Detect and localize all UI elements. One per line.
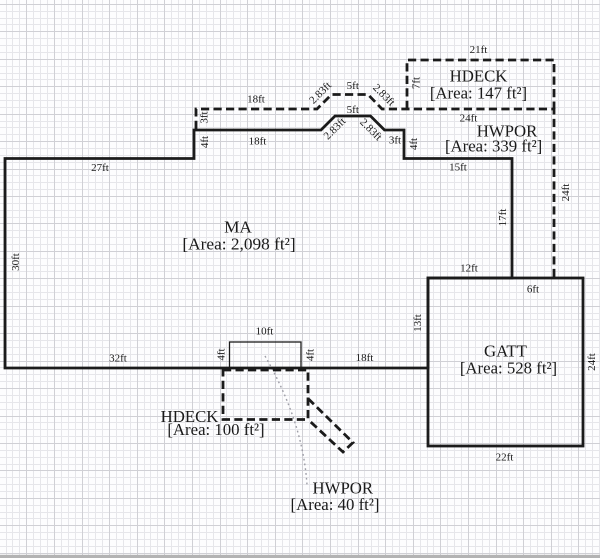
HDECK 147 dashed outline [407,60,554,109]
svg-text:[Area: 528 ft²]: [Area: 528 ft²] [460,359,557,378]
svg-text:27ft: 27ft [91,162,109,174]
svg-text:3ft: 3ft [389,134,401,146]
svg-text:3ft: 3ft [198,111,210,123]
HWPOR 40 thin rectangle [230,342,302,368]
svg-text:[Area: 2,098 ft²]: [Area: 2,098 ft²] [182,235,295,254]
svg-text:10ft: 10ft [256,325,274,337]
svg-text:[Area: 147 ft²]: [Area: 147 ft²] [430,84,527,103]
svg-text:24ft: 24ft [460,112,478,124]
HWPOR 339 dashed outline [196,95,554,279]
svg-text:7ft: 7ft [410,77,422,89]
svg-text:4ft: 4ft [199,136,211,148]
svg-text:30ft: 30ft [10,253,22,271]
svg-text:18ft: 18ft [356,352,374,364]
svg-text:13ft: 13ft [412,314,424,332]
leader line from HWPOR 40 rect to its label [265,356,307,485]
HWPOR 40 angled dashed outline [308,399,353,453]
svg-text:24ft: 24ft [560,184,572,202]
svg-text:12ft: 12ft [460,262,478,274]
svg-text:17ft: 17ft [497,209,509,227]
svg-text:18ft: 18ft [247,93,265,105]
svg-text:5ft: 5ft [347,104,359,116]
svg-text:21ft: 21ft [470,44,488,56]
svg-text:4ft: 4ft [304,349,316,361]
svg-text:22ft: 22ft [496,451,514,463]
MA outline [5,116,512,368]
svg-text:18ft: 18ft [249,135,267,147]
svg-text:4ft: 4ft [215,348,227,360]
GATT outline [428,278,583,446]
svg-text:[Area: 100 ft²]: [Area: 100 ft²] [167,420,264,439]
svg-text:32ft: 32ft [109,352,127,364]
svg-text:5ft: 5ft [347,80,359,92]
bottom gray band [0,555,600,558]
svg-text:15ft: 15ft [449,161,467,173]
HDECK 100 dashed outline [223,370,308,420]
svg-text:[Area: 339 ft²]: [Area: 339 ft²] [445,137,542,156]
svg-text:4ft: 4ft [408,138,420,150]
svg-text:6ft: 6ft [527,283,539,295]
svg-text:24ft: 24ft [586,353,598,371]
svg-text:[Area: 40 ft²]: [Area: 40 ft²] [291,495,380,514]
